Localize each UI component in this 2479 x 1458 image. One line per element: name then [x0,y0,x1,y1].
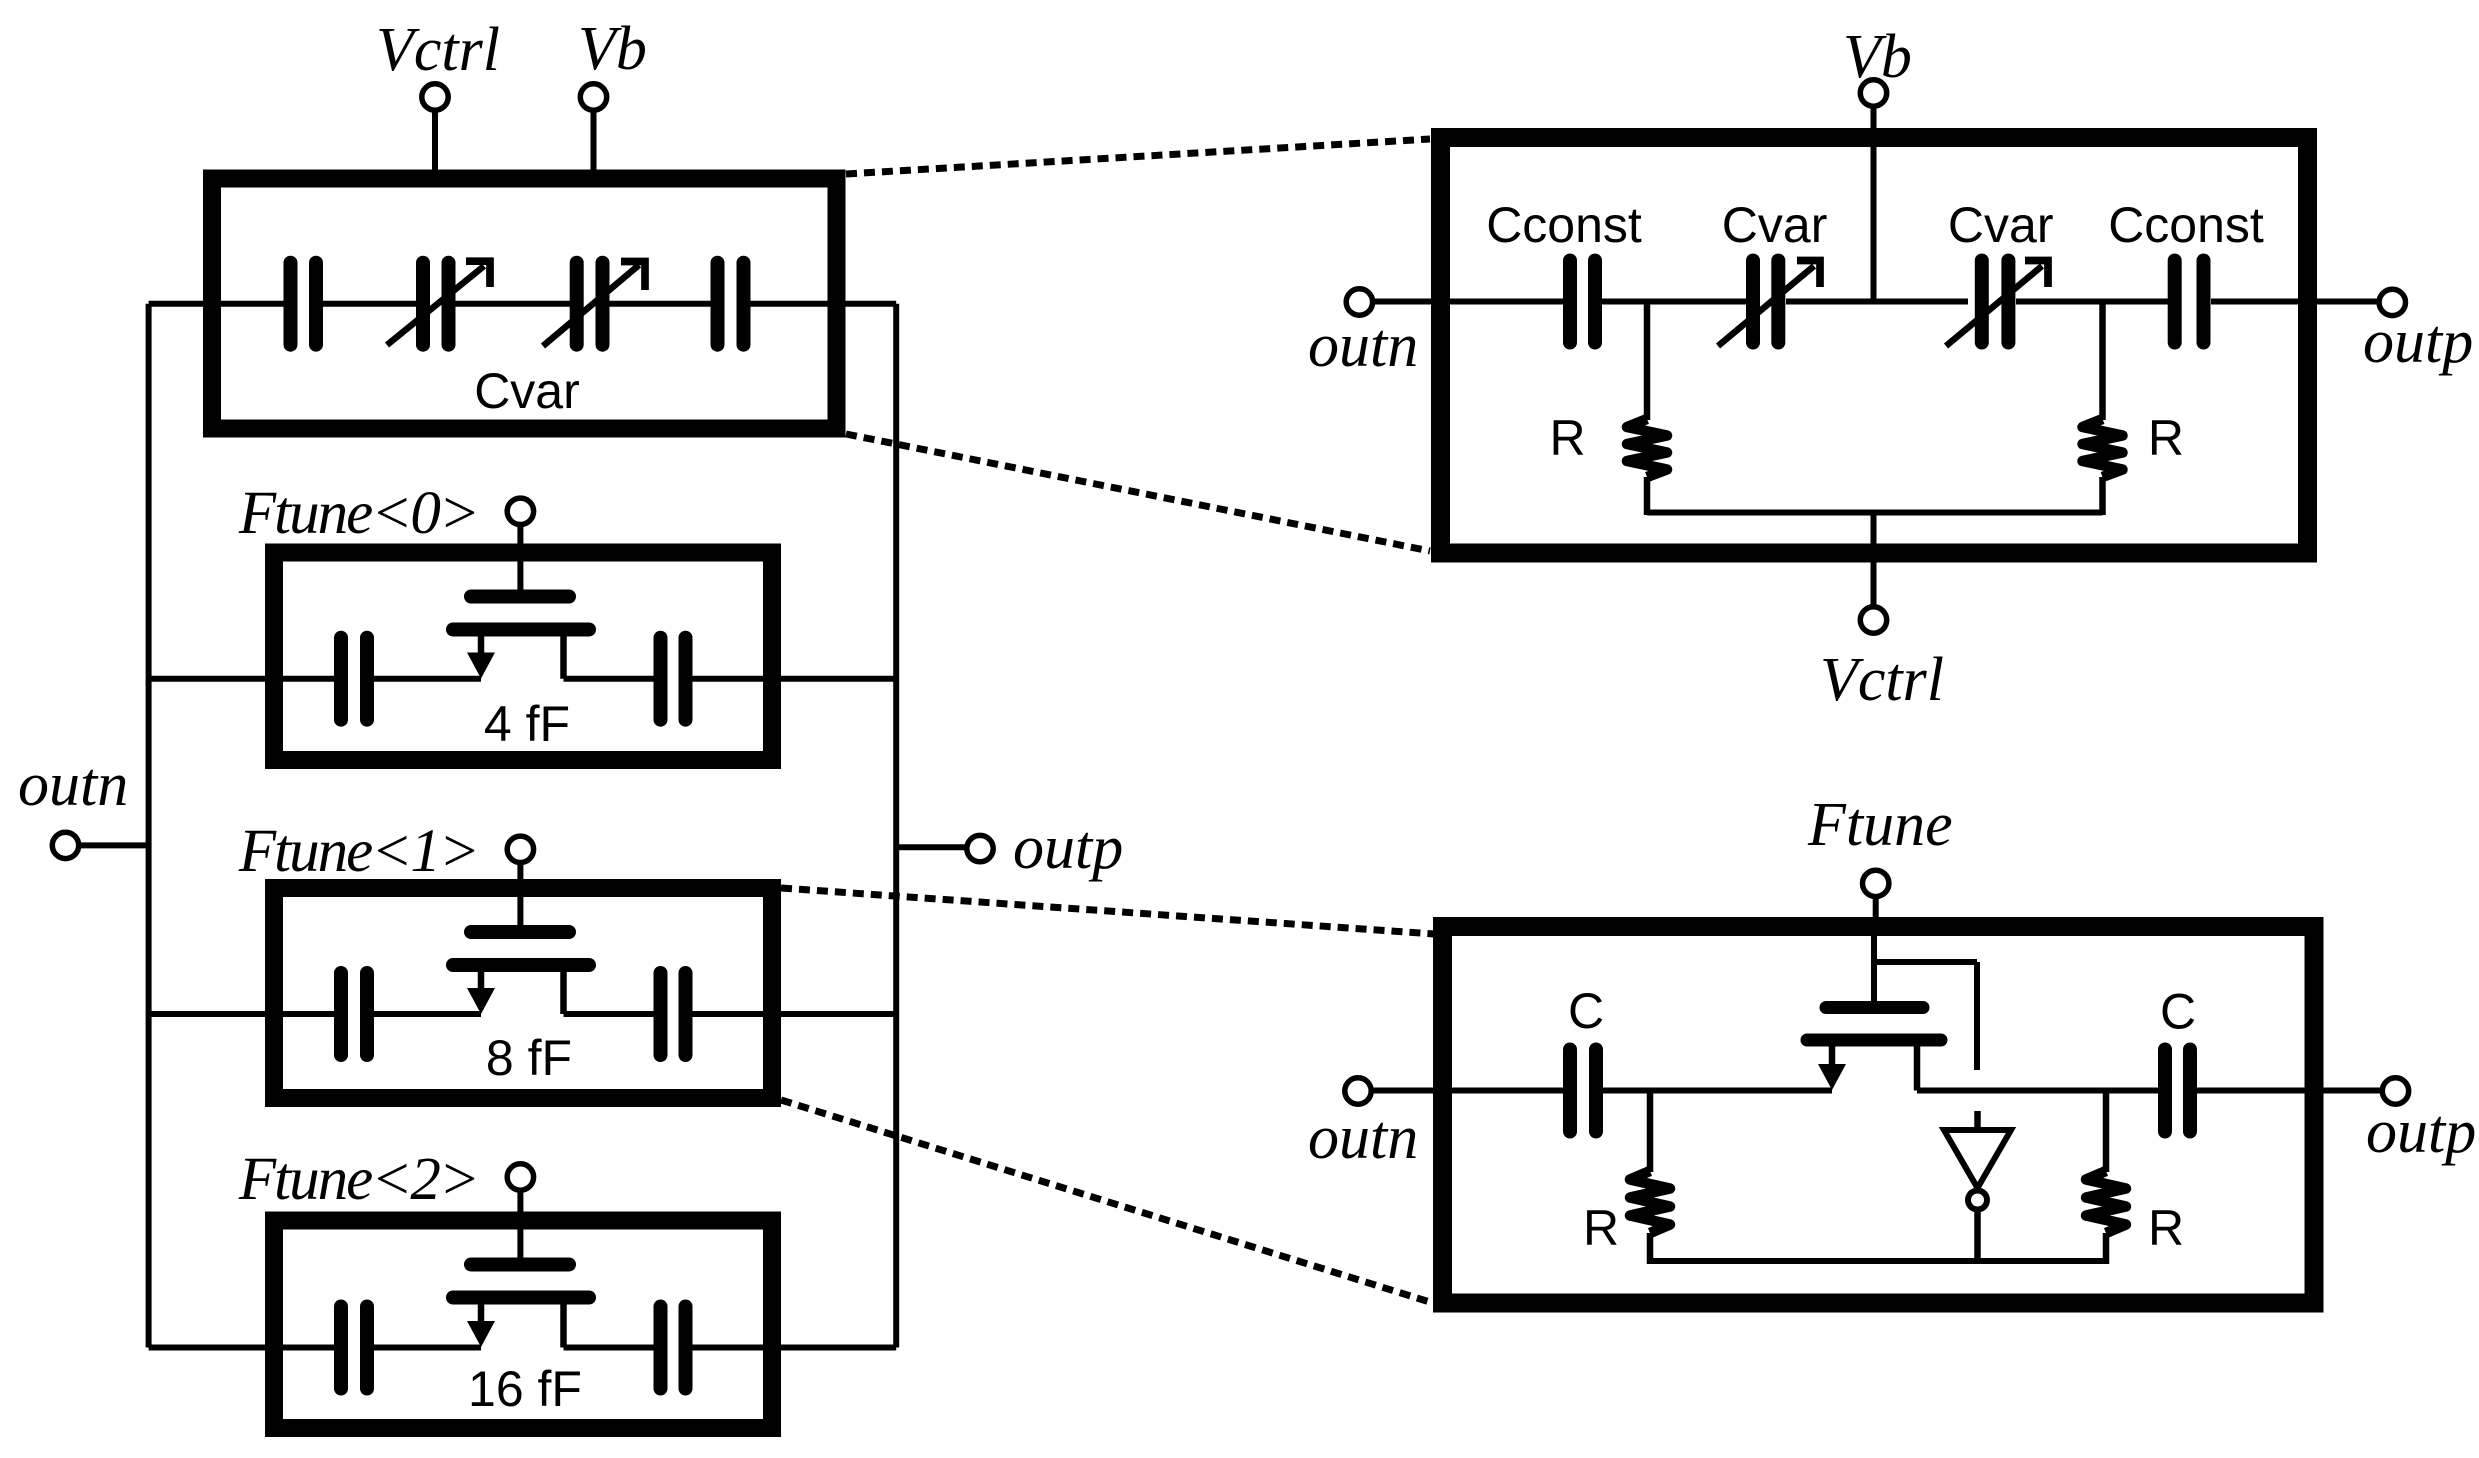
node Ftune<0> terminal [507,498,533,549]
wire main row y=301 (Cvar detail) [1373,299,2378,305]
transistor M1 switch (Ftune<1>) [453,884,589,1014]
svg-text:Vctrl: Vctrl [376,16,500,84]
capacitor left (Ftune<2>) [341,1307,367,1389]
svg-text:Ftune<1>: Ftune<1> [238,818,478,885]
node Ftune<2> terminal [507,1164,533,1216]
svg-text:outn: outn [1308,1104,1418,1172]
capacitor right (Ftune<0>) [661,638,686,720]
svg-text:R: R [2148,1200,2184,1256]
wire bottom tie (detail box) [1647,510,2103,516]
svg-text:R: R [1583,1200,1619,1256]
wire row y=1014 (Ftune<1>) [149,1011,897,1017]
svg-text:R: R [1549,410,1585,466]
svg-text:outp: outp [2363,308,2473,376]
node Ftune<1> terminal [507,836,533,884]
Ftune switch detail box (thick border, lower right) [1443,927,2315,1304]
wire bottom tie (switch detail) [1650,1258,2106,1264]
dashed pointer line top (Cvar cell to detail box) [846,139,1430,174]
node Vctrl (top terminal of Cvar cell) [422,84,448,172]
dashed pointer line second (Cvar cell to detail box) [846,434,1430,551]
svg-text:Vctrl: Vctrl [1820,646,1944,714]
svg-text:4 fF: 4 fF [484,696,570,752]
capacitor Cvar right (detail) [1946,261,2048,347]
dashed pointer line fourth (Ftune<1> cell to detail box) [781,1100,1433,1303]
capacitor left (Ftune<1>) [341,973,367,1055]
resistor R left (switch detail) [1630,1091,1670,1265]
svg-text:Cvar: Cvar [474,363,580,419]
node Vb (detail box top terminal) [1860,80,1886,301]
svg-text:outp: outp [2366,1098,2476,1166]
dashed pointer line third (Ftune<1> cell to detail box) [781,888,1434,934]
switched-cap cell Ftune<2> box (thick border) [274,1221,772,1429]
capacitor right (Ftune<1>) [661,973,686,1055]
node Ftune (detail box top terminal) [1863,870,1889,922]
svg-text:R: R [2148,410,2184,466]
capacitor variable C2 (Cvar cell) [387,261,490,345]
Cvar detail box (thick border, upper right) [1441,138,2308,554]
inverter (switch detail) [1944,1111,2011,1261]
wire row y=679 (Ftune<0>) [149,676,897,682]
svg-text:C: C [2160,984,2196,1040]
svg-text:outn: outn [18,751,128,819]
svg-text:Ftune<2>: Ftune<2> [238,1146,478,1213]
switched-cap cell Ftune<1> box (thick border) [274,888,772,1098]
svg-text:Cvar: Cvar [1722,197,1828,253]
capacitor fixed C4 (Cvar cell, rightmost) [718,263,744,345]
node outn (left terminal) [52,832,148,858]
resistor R right (detail) [2083,302,2123,516]
svg-text:16 fF: 16 fF [468,1361,582,1417]
capacitor Cconst right (detail) [2175,261,2204,343]
node outp (switch detail right) [2382,1078,2408,1104]
capacitor left (Ftune<0>) [341,638,367,720]
node Vb (top terminal of Cvar cell) [580,84,606,172]
Cvar cell box (thick border) [212,179,837,429]
capacitor right (Ftune<2>) [661,1307,686,1389]
svg-text:8 fF: 8 fF [486,1030,572,1086]
svg-text:outp: outp [1013,814,1123,882]
wire main row y=1090.5 (switch detail) [1372,1088,2383,1094]
transistor M0 switch (Ftune<0>) [453,549,589,679]
resistor R right (switch detail) [2086,1091,2126,1265]
transistor M2 switch (Ftune<2>) [453,1216,589,1348]
node outn (detail box left) [1346,289,1372,315]
node outp (detail box right) [2379,289,2405,315]
svg-text:Vb: Vb [1843,23,1912,91]
wire row y=1347.5 (Ftune<2>) [149,1345,897,1351]
capacitor C left (switch detail) [1570,1050,1596,1132]
capacitor fixed C1 (Cvar cell, leftmost) [291,263,317,345]
svg-text:outn: outn [1308,312,1418,380]
svg-text:Vb: Vb [578,15,647,83]
svg-text:Cvar: Cvar [1948,197,2054,253]
svg-text:Ftune<0>: Ftune<0> [238,480,478,547]
capacitor Cvar left (detail) [1718,261,1820,347]
node outp (right terminal of main loop) [896,835,993,861]
svg-text:Cconst: Cconst [2108,197,2264,253]
switched-cap cell Ftune<0> box (thick border) [274,553,772,761]
node outn (switch detail left) [1345,1078,1371,1104]
node Vctrl (detail box bottom terminal) [1860,513,1886,634]
capacitor variable C3 (Cvar cell) [543,262,645,347]
wire left rail of main tank loop [146,304,152,1348]
wire top row of main loop (Cvar row) [149,301,897,307]
capacitor C right (switch detail) [2165,1050,2190,1132]
transistor switch M (switch detail) [1807,922,1977,1091]
capacitor Cconst left (detail) [1570,261,1595,343]
svg-text:Cconst: Cconst [1486,197,1642,253]
resistor R left (detail) [1627,302,1667,516]
svg-text:C: C [1568,983,1604,1039]
wire right rail of main tank loop [893,304,899,1348]
svg-text:Ftune: Ftune [1807,791,1953,859]
